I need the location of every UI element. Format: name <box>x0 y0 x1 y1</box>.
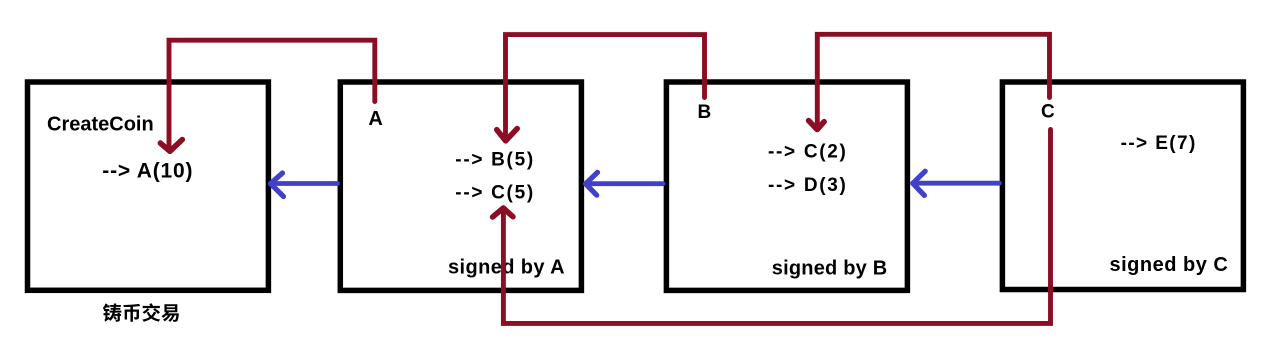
svg-text:signed by C: signed by C <box>1110 254 1229 276</box>
svg-text:--> C(5): --> C(5) <box>455 183 535 204</box>
svg-text:C: C <box>1041 102 1055 123</box>
svg-text:signed by A: signed by A <box>448 257 565 279</box>
red arrowhead 2 <box>497 129 517 141</box>
svg-text:B: B <box>698 102 712 123</box>
svg-text:--> D(3): --> D(3) <box>768 175 848 196</box>
red arrowhead 1 <box>160 140 182 152</box>
svg-text:signed by B: signed by B <box>772 258 888 280</box>
svg-text:--> A(10): --> A(10) <box>102 160 193 183</box>
box Tx2 (signed by B) <box>666 82 907 290</box>
box Tx0 CreateCoin <box>28 82 269 290</box>
red pointer wire 3: from C input down into C(2) <box>817 34 1049 127</box>
blue arrow 1: Tx1 to Tx0 <box>270 173 337 197</box>
red arrowhead 4 (pointing up) <box>493 208 513 217</box>
blue arrow 2: Tx2 to Tx1 <box>586 172 664 195</box>
box Tx1 (signed by A) <box>340 82 581 290</box>
label 铸币交易 (coin minting transaction, drawn as vector glyphs) <box>103 303 179 322</box>
red arrowhead 3 <box>809 121 825 130</box>
red pointer wire 1: from A input down into CreateCoin output A(10) <box>169 40 375 150</box>
red pointer wire 4: from C input under the boxes up into C(5) <box>503 130 1050 324</box>
svg-text:--> C(2): --> C(2) <box>768 142 848 163</box>
svg-text:CreateCoin: CreateCoin <box>47 113 154 135</box>
box Tx3 (signed by C) <box>1002 82 1243 290</box>
svg-text:--> E(7): --> E(7) <box>1121 133 1197 154</box>
red pointer wire 2: from B input down into B(5) <box>506 35 705 139</box>
svg-text:A: A <box>368 108 382 130</box>
svg-text:--> B(5): --> B(5) <box>455 150 535 171</box>
blue arrow 3: Tx3 to Tx2 <box>913 171 1000 195</box>
